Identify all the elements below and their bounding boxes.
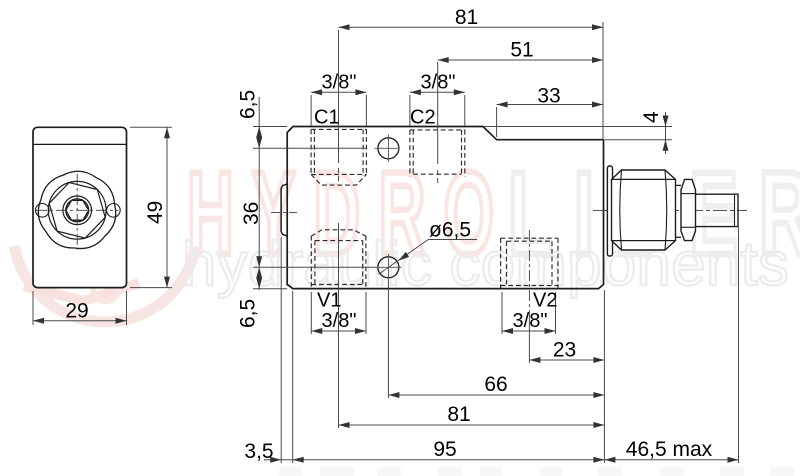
svg-text:81: 81: [455, 6, 478, 29]
watermark logo ring: [14, 246, 195, 322]
port V1: [311, 230, 366, 289]
svg-text:3/8": 3/8": [513, 310, 548, 332]
svg-text:46,5 max: 46,5 max: [626, 438, 713, 461]
faint bottom watermark letter tops: [279, 467, 794, 476]
svg-text:3,5: 3,5: [244, 440, 273, 463]
port C1: [311, 129, 366, 185]
upper hole cross vertical: [387, 135, 389, 162]
svg-text:51: 51: [510, 39, 533, 62]
svg-text:6,5: 6,5: [237, 299, 260, 328]
extension top face left: [253, 126, 287, 128]
side hole left: [36, 204, 50, 218]
svg-text:49: 49: [144, 201, 167, 224]
svg-text:81: 81: [447, 403, 470, 426]
dim 95: [264, 459, 604, 461]
svg-text:6,5: 6,5: [237, 90, 260, 119]
svg-text:66: 66: [484, 373, 507, 396]
svg-text:33: 33: [537, 85, 560, 108]
svg-text:C2: C2: [410, 107, 436, 129]
dim 3/8 V1: [311, 330, 366, 332]
svg-text:3/8": 3/8": [421, 72, 456, 94]
extension hole line: [253, 266, 376, 268]
front view chamfer line: [33, 143, 127, 145]
upper mounting hole: [378, 138, 399, 159]
dim 81 bottom: [339, 424, 605, 426]
V2 center line: [528, 230, 530, 310]
extension 95 left: [292, 291, 294, 463]
dim 29 extension lines: [32, 291, 34, 325]
plug lobed outline: [36, 169, 119, 251]
dim 33: [497, 104, 603, 106]
stem: [696, 194, 739, 226]
svg-text:3/8": 3/8": [322, 72, 357, 94]
port C2: [410, 130, 465, 177]
svg-text:3/8": 3/8": [322, 310, 357, 332]
svg-text:V2: V2: [533, 290, 557, 312]
dim 49 extension lines: [130, 126, 172, 128]
extension bottom face left: [253, 288, 287, 290]
hole center extension: [387, 281, 389, 399]
watermark line hydraulic components: [182, 230, 792, 299]
dim 3/8 V2: [502, 330, 556, 332]
front view centerline vertical: [76, 174, 78, 250]
watermark word HYDRO: [187, 149, 512, 280]
extension stem end: [738, 227, 740, 463]
boss centerline: [271, 212, 297, 214]
extension port top line: [253, 147, 366, 149]
dim 49 line: [166, 127, 168, 287]
big hex: [612, 170, 676, 250]
watermark logo heart band: [24, 283, 139, 301]
dim 3/8 C1: [311, 91, 366, 93]
front view block: [33, 127, 127, 287]
plug socket circle: [66, 199, 89, 222]
washer: [607, 166, 612, 256]
svg-text:4: 4: [640, 111, 663, 123]
plug washer circle: [63, 196, 92, 225]
plug hex head circle: [48, 181, 106, 239]
lower mounting hole: [378, 257, 399, 278]
svg-text:95: 95: [433, 438, 456, 461]
plug hex head hexagon: [43, 179, 111, 242]
port V2: [501, 238, 558, 288]
dim 29 line: [33, 320, 127, 322]
dim 46,5 max: [604, 459, 738, 461]
svg-text:29: 29: [65, 300, 88, 323]
dim 3/8 C2: [410, 91, 465, 93]
svg-text:V1: V1: [317, 290, 341, 312]
dim 4: [483, 126, 672, 128]
front view centerline horizontal: [36, 209, 119, 211]
watermark logo drop: [93, 275, 119, 301]
watermark word LIDER: [508, 147, 800, 279]
extension 3,5 line: [280, 237, 282, 463]
svg-text:23: 23: [553, 339, 576, 362]
body outline: [287, 127, 603, 289]
right edge extension above: [602, 22, 604, 140]
step corner extension: [496, 107, 498, 137]
plug socket hexagon: [66, 200, 89, 220]
neck: [676, 184, 682, 186]
svg-text:ø6,5: ø6,5: [429, 219, 471, 242]
lower hole cross vertical: [387, 254, 389, 281]
C1 center line: [338, 30, 340, 163]
small hex nut: [681, 179, 696, 240]
left boss protrusion: [281, 184, 287, 236]
side hole right: [107, 204, 121, 218]
left vertical dimension line: [258, 97, 260, 290]
fitting axis centerline: [593, 209, 747, 211]
leader line: [379, 240, 429, 275]
V1 center line: [338, 223, 340, 428]
upper hole cross horizontal: [375, 147, 400, 149]
dim 51: [438, 59, 603, 61]
C2 center line: [437, 62, 439, 164]
dim 66: [388, 394, 604, 396]
dim 23: [529, 359, 604, 361]
svg-text:36: 36: [240, 202, 263, 225]
svg-text:C1: C1: [314, 107, 340, 129]
dim 81 top: [339, 26, 604, 28]
extension right edge below: [603, 290, 605, 463]
